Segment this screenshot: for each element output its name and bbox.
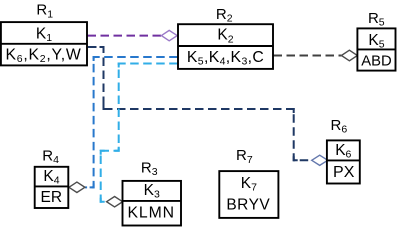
svg-text:R3: R3 (141, 159, 158, 178)
wire black R2 to R5 (274, 55, 342, 57)
svg-text:R2: R2 (216, 6, 233, 25)
label R5 (368, 10, 385, 29)
wire cyan R2 to R3 (101, 64, 178, 202)
relation R7 box (219, 171, 278, 218)
svg-text:KLMN: KLMN (128, 204, 175, 221)
label R3 (141, 159, 158, 178)
label R6 (331, 117, 348, 136)
diamond at R6 (navy) (312, 155, 328, 165)
label R4 (42, 147, 59, 166)
diamond at R4 (black) (69, 182, 85, 192)
svg-text:R4: R4 (42, 147, 59, 166)
svg-text:PX: PX (333, 164, 355, 181)
relation R2 box (178, 24, 273, 69)
diamond at R3 (black) (107, 197, 123, 207)
svg-text:ABD: ABD (361, 54, 391, 70)
svg-text:R7: R7 (236, 147, 253, 166)
svg-text:BRYV: BRYV (226, 197, 270, 214)
relation R5 box (357, 28, 395, 70)
diamond at R5 (black) (341, 50, 357, 61)
label R7 (236, 147, 253, 166)
label R1 (36, 2, 53, 21)
relation R1 box (1, 22, 87, 65)
svg-text:R1: R1 (36, 2, 53, 21)
wire blue R2 to R4 (85, 57, 178, 187)
relation R4 box (35, 167, 69, 208)
svg-text:ER: ER (41, 189, 63, 206)
wire navy R1 to R6 (88, 47, 312, 160)
relation R3 box (123, 181, 182, 226)
svg-text:R5: R5 (368, 10, 385, 29)
wire purple R1 to R2 (88, 35, 162, 37)
diamond at R2 (purple) (161, 30, 177, 40)
relation R6 box (327, 140, 360, 183)
label R2 (216, 6, 233, 25)
svg-text:R6: R6 (331, 117, 348, 136)
